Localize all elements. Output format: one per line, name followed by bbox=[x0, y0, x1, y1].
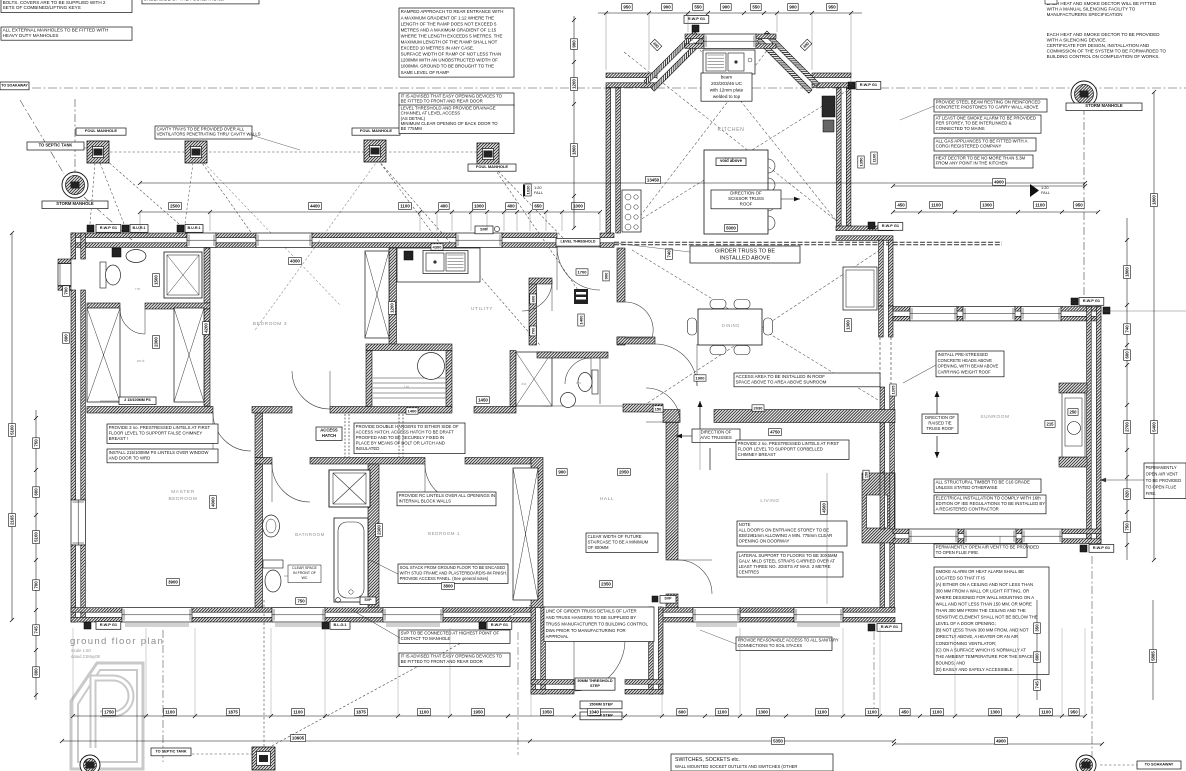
svg-text:A REGISTERED CONTRACTOR: A REGISTERED CONTRACTOR bbox=[936, 506, 999, 511]
dim 1100 bbox=[1034, 202, 1047, 209]
drainage dash-dot line across sheet top bbox=[0, 87, 1186, 89]
foul manhole 2 label bbox=[170, 128, 220, 135]
svg-text:wrd: wrd bbox=[137, 359, 145, 363]
dim 1100 bbox=[871, 152, 877, 164]
bedroom3 east wall bbox=[389, 248, 397, 344]
dim 1100 bbox=[1040, 709, 1053, 716]
dim 4900 bbox=[995, 738, 1008, 745]
dim 950 bbox=[827, 4, 838, 11]
svg-text:750: 750 bbox=[34, 439, 39, 447]
drain diagonal across bedroom3 b bbox=[255, 160, 378, 330]
wc east thin wall bbox=[599, 358, 601, 404]
svg-text:BE FITTED TO FRONT AND REAR DO: BE FITTED TO FRONT AND REAR DOOR bbox=[401, 99, 483, 104]
svg-text:OF 800MM: OF 800MM bbox=[588, 545, 609, 550]
airing cupboard west wall bbox=[510, 351, 516, 407]
en-suite basin bbox=[126, 250, 146, 263]
foul manhole 3 label bbox=[352, 128, 400, 135]
bath tub bbox=[334, 518, 368, 602]
svg-text:R.W.P G1: R.W.P G1 bbox=[100, 622, 118, 627]
boiler box bbox=[112, 248, 121, 257]
svg-text:R.W.P G1: R.W.P G1 bbox=[1083, 298, 1101, 303]
svg-text:SURFACE WIDTH OF RAMP OF NOT L: SURFACE WIDTH OF RAMP OF NOT LESS THAN bbox=[401, 52, 502, 57]
en-suite south wall e bbox=[145, 303, 210, 309]
svg-text:1200: 1200 bbox=[572, 79, 577, 89]
window living 1 bbox=[693, 608, 740, 622]
rwp drop bottom-left bbox=[162, 630, 164, 762]
leader cavity trays bbox=[251, 135, 300, 150]
dim 215 bbox=[1045, 421, 1055, 428]
dim 2165 bbox=[9, 514, 16, 527]
dim 700 bbox=[33, 580, 40, 591]
dim 2500 bbox=[169, 203, 182, 210]
soakaway run bottom-right bbox=[1100, 764, 1137, 766]
svg-text:SCISSOR TRUSS: SCISSOR TRUSS bbox=[728, 196, 764, 201]
lobby west wall lower bbox=[617, 337, 625, 345]
svg-text:LEAST THREE NO. JOISTS AT MAX.: LEAST THREE NO. JOISTS AT MAX. 2 METRE bbox=[739, 564, 831, 569]
switches note bottom bbox=[671, 754, 833, 771]
drain branch from foul manhole 3 bbox=[378, 160, 445, 250]
sunroom north seg4 bbox=[1061, 307, 1101, 321]
drain branch from foul manhole 2 bbox=[200, 160, 262, 248]
svg-text:400: 400 bbox=[440, 204, 448, 209]
svg-text:with 12mm plate: with 12mm plate bbox=[710, 87, 744, 92]
rwp bottom-mid box bbox=[479, 622, 486, 629]
note raised tie truss bbox=[922, 414, 958, 433]
dim 650 bbox=[533, 203, 544, 210]
dim 1400 bbox=[578, 314, 584, 326]
svg-text:FIRE.: FIRE. bbox=[1146, 491, 1157, 496]
svg-text:CLEAR SPACE: CLEAR SPACE bbox=[292, 566, 318, 570]
dining south seg1 bbox=[663, 410, 680, 423]
svg-text:void above: void above bbox=[720, 158, 743, 163]
dim 1000 bbox=[572, 203, 585, 210]
dim 1750 bbox=[103, 709, 116, 716]
svg-text:5350: 5350 bbox=[773, 739, 783, 744]
window bedroom1 bbox=[383, 608, 443, 622]
hall east wall lower bbox=[666, 594, 678, 608]
foul manhole 1 bbox=[87, 141, 109, 163]
extension lines to wall bbox=[139, 212, 141, 231]
small empty box top-right bbox=[1045, 0, 1057, 4]
note air vent right bbox=[1144, 463, 1186, 499]
leader air vent right bbox=[1100, 479, 1144, 481]
raised tie truss arrow bbox=[936, 391, 938, 414]
rwp drop to storm bottom-right bbox=[1091, 556, 1093, 757]
svg-text:1300: 1300 bbox=[758, 710, 768, 715]
utility appliance bbox=[404, 251, 413, 260]
svg-text:1900: 1900 bbox=[696, 375, 706, 380]
ps lintel label bbox=[119, 397, 156, 405]
porch south wall w bbox=[531, 680, 574, 694]
svg-text:5100: 5100 bbox=[34, 532, 39, 542]
bathroom wc bbox=[263, 560, 283, 592]
wc pan (cloakroom) bbox=[578, 370, 598, 394]
svg-text:Scale 1:50: Scale 1:50 bbox=[71, 648, 91, 653]
svg-text:700: 700 bbox=[530, 327, 535, 334]
dining centre dim line bbox=[699, 428, 701, 470]
svg-text:900: 900 bbox=[722, 5, 730, 10]
leader steel beam note bbox=[900, 106, 934, 120]
leader sanitary bbox=[700, 630, 736, 644]
svg-text:550: 550 bbox=[694, 5, 702, 10]
svg-text:1000: 1000 bbox=[573, 204, 583, 209]
opening dining-sunroom dashed bbox=[879, 337, 881, 387]
septic connection manhole bottom bbox=[252, 747, 275, 770]
septic tank run bottom bbox=[192, 753, 253, 755]
window master 1 bbox=[122, 608, 192, 622]
svg-text:ROOF: ROOF bbox=[740, 201, 753, 206]
dim 1450 bbox=[477, 397, 490, 404]
porch door arc bbox=[574, 640, 625, 691]
right dim column 1 bbox=[1126, 218, 1128, 560]
master/bath wall bbox=[255, 464, 263, 608]
dim 1205 bbox=[890, 384, 896, 396]
svg-text:VENTILATORS PENETRATING THRU': VENTILATORS PENETRATING THRU' CAVITY WAL… bbox=[157, 132, 261, 137]
svg-text:WITH A SILENCING DEVICE.: WITH A SILENCING DEVICE. bbox=[1047, 37, 1107, 42]
top wall NE segment bbox=[836, 226, 893, 240]
door bathroom bbox=[272, 464, 310, 502]
svg-text:lin: lin bbox=[404, 385, 409, 389]
hall east wall upper bbox=[666, 413, 678, 560]
svg-text:(B) NOT LESS THAN 300 MM FROM,: (B) NOT LESS THAN 300 MM FROM, AND NOT bbox=[936, 628, 1029, 633]
lobby west wall upper bbox=[617, 248, 625, 302]
bay nw stub bbox=[606, 73, 657, 87]
svg-text:STEP: STEP bbox=[590, 684, 600, 688]
bottom wall seg7 bbox=[843, 608, 895, 622]
drain branch from foul manhole 1 to bur2 bbox=[106, 160, 179, 224]
east wall below opening bbox=[880, 387, 894, 473]
foul manhole 4 label bbox=[468, 164, 516, 171]
note svp connection bbox=[399, 630, 510, 643]
svg-text:WALL AND NOT LESS THAN 150 MM,: WALL AND NOT LESS THAN 150 MM, OR MORE bbox=[936, 602, 1032, 607]
dim 750 bbox=[33, 438, 40, 449]
en-suite east wall bbox=[204, 248, 210, 303]
leader svp note bbox=[352, 610, 400, 638]
dim 1100 bbox=[816, 709, 829, 716]
dim 1100 bbox=[292, 709, 305, 716]
dim 745 bbox=[33, 625, 40, 636]
drain branch from foul manhole 1 to bur1 bbox=[100, 163, 124, 224]
dim 4900 bbox=[993, 179, 1006, 186]
left wall seg3 bbox=[71, 545, 85, 622]
svg-text:CONCRETE HEADS ABOVE: CONCRETE HEADS ABOVE bbox=[938, 358, 993, 363]
dim 700 bbox=[63, 286, 70, 297]
storm manhole label tr bbox=[1066, 103, 1142, 111]
top wall seg3 bbox=[312, 233, 456, 247]
svg-text:745: 745 bbox=[34, 626, 39, 634]
right lower dim column bbox=[1036, 600, 1038, 700]
leader clear space wc bbox=[284, 575, 288, 577]
door hall-living bbox=[678, 560, 712, 594]
dim 400 bbox=[800, 39, 812, 51]
rwp sunroom ne box bbox=[1071, 298, 1078, 305]
svg-text:4000: 4000 bbox=[211, 497, 216, 507]
dim 5400 bbox=[1151, 421, 1158, 434]
bay north seg1 bbox=[685, 34, 704, 48]
svg-text:LEVEL THRESHOLD: LEVEL THRESHOLD bbox=[561, 240, 596, 244]
dim 2300 bbox=[376, 524, 383, 537]
left wall seg2 bbox=[71, 290, 85, 500]
dim 1800 bbox=[1124, 266, 1131, 279]
sunroom window s3 bbox=[1022, 529, 1062, 543]
top dimension row bbox=[140, 211, 600, 213]
svg-text:LOCATED SO THAT IT IS: LOCATED SO THAT IT IS bbox=[936, 575, 986, 580]
note kitchen beam bbox=[701, 73, 752, 101]
linen closet north wall bbox=[366, 344, 452, 351]
to septic tank label 2 bbox=[151, 748, 191, 756]
note smoke detector 2 bbox=[1047, 32, 1167, 59]
svg-text:1100: 1100 bbox=[717, 710, 727, 715]
leader air vent bottom bbox=[999, 536, 1001, 544]
rwp box bbox=[177, 225, 184, 232]
svg-text:ACCESS AREA TO BE INSTALLED IN: ACCESS AREA TO BE INSTALLED IN ROOF bbox=[736, 374, 826, 379]
dim 900 bbox=[557, 469, 568, 476]
svg-text:900: 900 bbox=[663, 5, 671, 10]
svg-text:A MAXIMUM GRADIENT OF 1:12 WHE: A MAXIMUM GRADIENT OF 1:12 WHERE THE bbox=[401, 15, 495, 20]
en-suite wc pan bbox=[100, 262, 121, 288]
right dim column 2 bbox=[1153, 92, 1155, 560]
window master 2 bbox=[272, 608, 325, 622]
dim 1700 bbox=[576, 269, 588, 275]
dining sideboard bbox=[843, 267, 877, 310]
rwp box bbox=[652, 596, 658, 602]
svg-text:MAXIMUM LENGTH OF THE RAMP SHA: MAXIMUM LENGTH OF THE RAMP SHALL NOT bbox=[401, 40, 498, 45]
svg-text:4400: 4400 bbox=[310, 204, 320, 209]
arrow from scissor truss box bbox=[781, 198, 800, 200]
svg-text:1700: 1700 bbox=[578, 269, 588, 274]
svg-text:215: 215 bbox=[1047, 422, 1055, 427]
svg-text:LINE OF GIRDER TRUSS DETAILS O: LINE OF GIRDER TRUSS DETAILS OF LATER bbox=[546, 609, 637, 614]
bath/bed1 wall bbox=[368, 464, 379, 608]
dim 2700 bbox=[1124, 421, 1131, 434]
svg-text:1500: 1500 bbox=[154, 275, 159, 285]
dim 750 bbox=[1124, 522, 1131, 533]
kitchen hob bbox=[622, 190, 641, 232]
bed1 top seg bbox=[465, 458, 531, 465]
window master bedroom west bbox=[71, 500, 85, 545]
svg-text:LIVING: LIVING bbox=[760, 498, 779, 504]
svg-text:600: 600 bbox=[64, 334, 69, 342]
window bedroom3 bbox=[256, 233, 312, 247]
sill lines under bottom wall windows bbox=[125, 623, 189, 625]
svg-text:2500: 2500 bbox=[170, 204, 180, 209]
wardrobe e bbox=[174, 308, 204, 402]
svg-text:MASTER: MASTER bbox=[171, 489, 195, 495]
sunroom south seg2 bbox=[958, 529, 964, 543]
svg-text:650: 650 bbox=[534, 204, 542, 209]
svg-text:950: 950 bbox=[828, 5, 836, 10]
dining roof diagonal bbox=[640, 250, 880, 408]
dim 250 bbox=[1068, 409, 1078, 416]
svg-text:ACCESS HATCH. ACCESS HATCH TO: ACCESS HATCH. ACCESS HATCH TO BE DRAFT bbox=[356, 429, 455, 434]
storm manhole top-left bbox=[62, 172, 88, 198]
hallway north seg4 bbox=[623, 404, 663, 412]
dim 1350 bbox=[858, 156, 864, 168]
svg-text:AND DOOR TO WRD: AND DOOR TO WRD bbox=[109, 455, 151, 460]
svg-text:150MM STEP: 150MM STEP bbox=[589, 702, 613, 706]
svg-text:ALL STRUCTURAL TIMBER TO BE C1: ALL STRUCTURAL TIMBER TO BE C16 GRADE bbox=[936, 480, 1030, 485]
rwp sunroom se label bbox=[1089, 545, 1114, 553]
rear door opening / level threshold bbox=[557, 246, 600, 248]
svg-text:OPENING, WITH BEAM ABOVE: OPENING, WITH BEAM ABOVE bbox=[938, 364, 999, 369]
rwp box bbox=[122, 225, 129, 232]
svg-text:950: 950 bbox=[623, 5, 631, 10]
kitchen west dim column bbox=[573, 16, 575, 228]
level threshold label bbox=[556, 239, 600, 247]
svg-text:4500: 4500 bbox=[822, 503, 827, 513]
utility door stub bbox=[529, 278, 552, 284]
svg-text:4900: 4900 bbox=[996, 739, 1006, 744]
svg-text:IN FRONT OF: IN FRONT OF bbox=[293, 571, 317, 575]
dim 700 bbox=[530, 326, 536, 336]
150mm step label bbox=[580, 701, 622, 709]
porch south wall e bbox=[625, 680, 663, 694]
to septic tank label 1 bbox=[27, 142, 84, 150]
dim 1050 bbox=[541, 709, 554, 716]
svg-text:CORGI REGISTERED COMPANY: CORGI REGISTERED COMPANY bbox=[936, 144, 1002, 149]
bathroom shower bbox=[329, 470, 370, 507]
door sunroom-living french bbox=[879, 432, 881, 473]
drain vertical to septic manhole bbox=[263, 600, 265, 748]
dining east wall upper bbox=[879, 240, 893, 306]
100mm step label bbox=[580, 712, 622, 720]
svg-text:THAN 300 MM FROM THE CEILING A: THAN 300 MM FROM THE CEILING AND THE bbox=[936, 608, 1026, 613]
porch west wall bbox=[531, 607, 545, 694]
svg-text:R.W.P G1: R.W.P G1 bbox=[882, 223, 900, 228]
svg-text:300 MM FROM A WALL OR LIGHT FI: 300 MM FROM A WALL OR LIGHT FITTING, OR bbox=[936, 588, 1030, 593]
svg-text:B.U.R.1: B.U.R.1 bbox=[132, 226, 145, 230]
svg-text:SUNROOM: SUNROOM bbox=[980, 414, 1009, 420]
note easy opening devices top bbox=[399, 93, 514, 106]
note structural timber bbox=[934, 479, 1041, 492]
foul manhole 2 bbox=[185, 141, 207, 163]
svg-text:(C) ON A SURFACE WHICH IS NORM: (C) ON A SURFACE WHICH IS NORMALLY AT bbox=[936, 647, 1027, 652]
svg-text:1100: 1100 bbox=[1035, 203, 1045, 208]
note access area roof bbox=[734, 373, 880, 387]
svg-text:DIRECTLY ABOVE, A HEATER OR AN: DIRECTLY ABOVE, A HEATER OR AN AIR bbox=[936, 634, 1018, 639]
living centre dim line bbox=[826, 473, 828, 604]
svg-text:900: 900 bbox=[603, 272, 608, 279]
bottom dim row 1 bbox=[73, 715, 1085, 717]
svg-text:rw: rw bbox=[135, 287, 140, 291]
rwp bottom-mid label bbox=[487, 622, 512, 630]
dim 550 bbox=[693, 4, 704, 11]
svg-text:1750: 1750 bbox=[104, 710, 114, 715]
foul manhole 1 label bbox=[76, 128, 126, 135]
dim 10605 bbox=[290, 735, 305, 742]
svg-text:2 15/100MM PS: 2 15/100MM PS bbox=[124, 398, 151, 402]
sunroom north seg1 bbox=[893, 307, 910, 321]
top wall seg2 bbox=[216, 233, 256, 247]
svg-text:PLACE BY MEANS OF BOLT OR LATC: PLACE BY MEANS OF BOLT OR LATCH AND bbox=[356, 441, 445, 446]
svg-text:HATCH: HATCH bbox=[322, 433, 336, 438]
svg-text:FOUL MANHOLE: FOUL MANHOLE bbox=[85, 128, 117, 133]
lobby south wall bbox=[617, 337, 655, 344]
svg-text:FOUL MANHOLE: FOUL MANHOLE bbox=[476, 164, 508, 169]
dim 1100 bbox=[931, 709, 944, 716]
top wall seg5 bbox=[600, 233, 614, 247]
airing cupboard bbox=[516, 352, 552, 406]
svg-text:APPROVAL: APPROVAL bbox=[546, 634, 569, 639]
svg-text:FROM ANY POINT IN THE KITCHEN: FROM ANY POINT IN THE KITCHEN bbox=[936, 161, 1008, 166]
door kitchen-lobby bbox=[625, 302, 653, 338]
svg-text:1100: 1100 bbox=[932, 710, 942, 715]
dim 450 bbox=[900, 709, 911, 716]
kitchen roof diagonal B bbox=[624, 90, 848, 230]
svg-text:R.W.P G1: R.W.P G1 bbox=[100, 225, 118, 230]
svg-text:600: 600 bbox=[678, 710, 686, 715]
bottom wall seg3 bbox=[325, 608, 383, 622]
top wall seg4 bbox=[502, 233, 557, 247]
svg-text:R.W.P G1: R.W.P G1 bbox=[1093, 545, 1111, 550]
dim 2350 bbox=[600, 581, 613, 588]
svg-text:1100: 1100 bbox=[867, 710, 877, 715]
note smoke alarm per storey bbox=[934, 115, 1041, 133]
note girder truss bbox=[690, 246, 800, 263]
svg-text:NOTE: NOTE bbox=[739, 522, 751, 527]
svg-text:STORM MANHOLE: STORM MANHOLE bbox=[56, 201, 94, 206]
logo hexagon P bbox=[71, 663, 143, 769]
void above label bbox=[716, 158, 746, 166]
svg-text:ground floor plan: ground floor plan bbox=[70, 636, 164, 647]
dim 4500 bbox=[821, 502, 828, 515]
kitchen roof diagonal A bbox=[624, 52, 848, 230]
svg-text:CONCRETE PADSTONES TO CARRY WA: CONCRETE PADSTONES TO CARRY WALL ABOVE bbox=[936, 105, 1039, 110]
rwp bottom-left label bbox=[96, 622, 121, 630]
door bedroom3 bbox=[292, 371, 330, 409]
svg-text:1875: 1875 bbox=[356, 710, 366, 715]
dim 900 bbox=[788, 4, 799, 11]
svg-text:WALL MOUNTED SOCKET OUTLETS AN: WALL MOUNTED SOCKET OUTLETS AND SWITCHES… bbox=[675, 764, 797, 769]
svg-text:AND TRUSS HANGERS TO BE SUPPLI: AND TRUSS HANGERS TO BE SUPPLIED BY bbox=[546, 615, 637, 620]
bay diagonal west bbox=[644, 31, 704, 91]
dim 1200 bbox=[389, 302, 396, 315]
dim 1040 bbox=[588, 709, 601, 716]
master top wall bbox=[87, 407, 213, 414]
svg-text:STORM MANHOLE: STORM MANHOLE bbox=[1085, 103, 1123, 108]
svg-text:BATHROOM: BATHROOM bbox=[295, 532, 325, 537]
svg-text:EXCEED 10 METRES IN ANY CASE.: EXCEED 10 METRES IN ANY CASE. bbox=[401, 46, 475, 51]
svg-text:150: 150 bbox=[655, 406, 662, 411]
svg-text:CONDITIONING VENTILATOR;: CONDITIONING VENTILATOR; bbox=[936, 641, 997, 646]
clear space wc bbox=[288, 565, 321, 583]
svg-text:CONNECTED TO MAINS: CONNECTED TO MAINS bbox=[936, 126, 985, 131]
dim 3900 bbox=[167, 579, 180, 586]
note heat detector bbox=[934, 155, 1033, 168]
dim 1900 bbox=[694, 375, 706, 381]
overall dim 13450 bbox=[140, 182, 1085, 184]
svg-text:DINING: DINING bbox=[722, 323, 740, 328]
dim 600 bbox=[1124, 350, 1131, 361]
svg-text:OPEN AIR VENT: OPEN AIR VENT bbox=[1146, 471, 1179, 476]
note doors entrance storey bbox=[737, 521, 847, 546]
svg-text:1100: 1100 bbox=[817, 710, 827, 715]
svg-text:203/203/46 UC: 203/203/46 UC bbox=[711, 81, 743, 86]
dining roof diagonal 2 bbox=[632, 250, 878, 400]
svg-text:BREAST !: BREAST ! bbox=[109, 436, 129, 441]
dim 900 bbox=[721, 4, 732, 11]
dim 350 bbox=[1034, 623, 1041, 634]
svg-text:1020: 1020 bbox=[525, 185, 530, 195]
dim 600 bbox=[1034, 652, 1041, 663]
svg-text:1000MM. GROUND TO BE BROUGHT: 1000MM. GROUND TO BE BROUGHT TO THE bbox=[401, 64, 495, 69]
svg-text:TO SOAKAWAY: TO SOAKAWAY bbox=[1, 83, 28, 87]
svg-text:SAME LEVEL OF RAMP: SAME LEVEL OF RAMP bbox=[401, 70, 449, 75]
svg-text:350: 350 bbox=[1035, 624, 1040, 632]
svg-text:B.U.R.1: B.U.R.1 bbox=[187, 226, 200, 230]
dim 4000 bbox=[210, 496, 217, 509]
svg-text:STAIRCASE TO BE A MINIMUM: STAIRCASE TO BE A MINIMUM bbox=[588, 539, 649, 544]
